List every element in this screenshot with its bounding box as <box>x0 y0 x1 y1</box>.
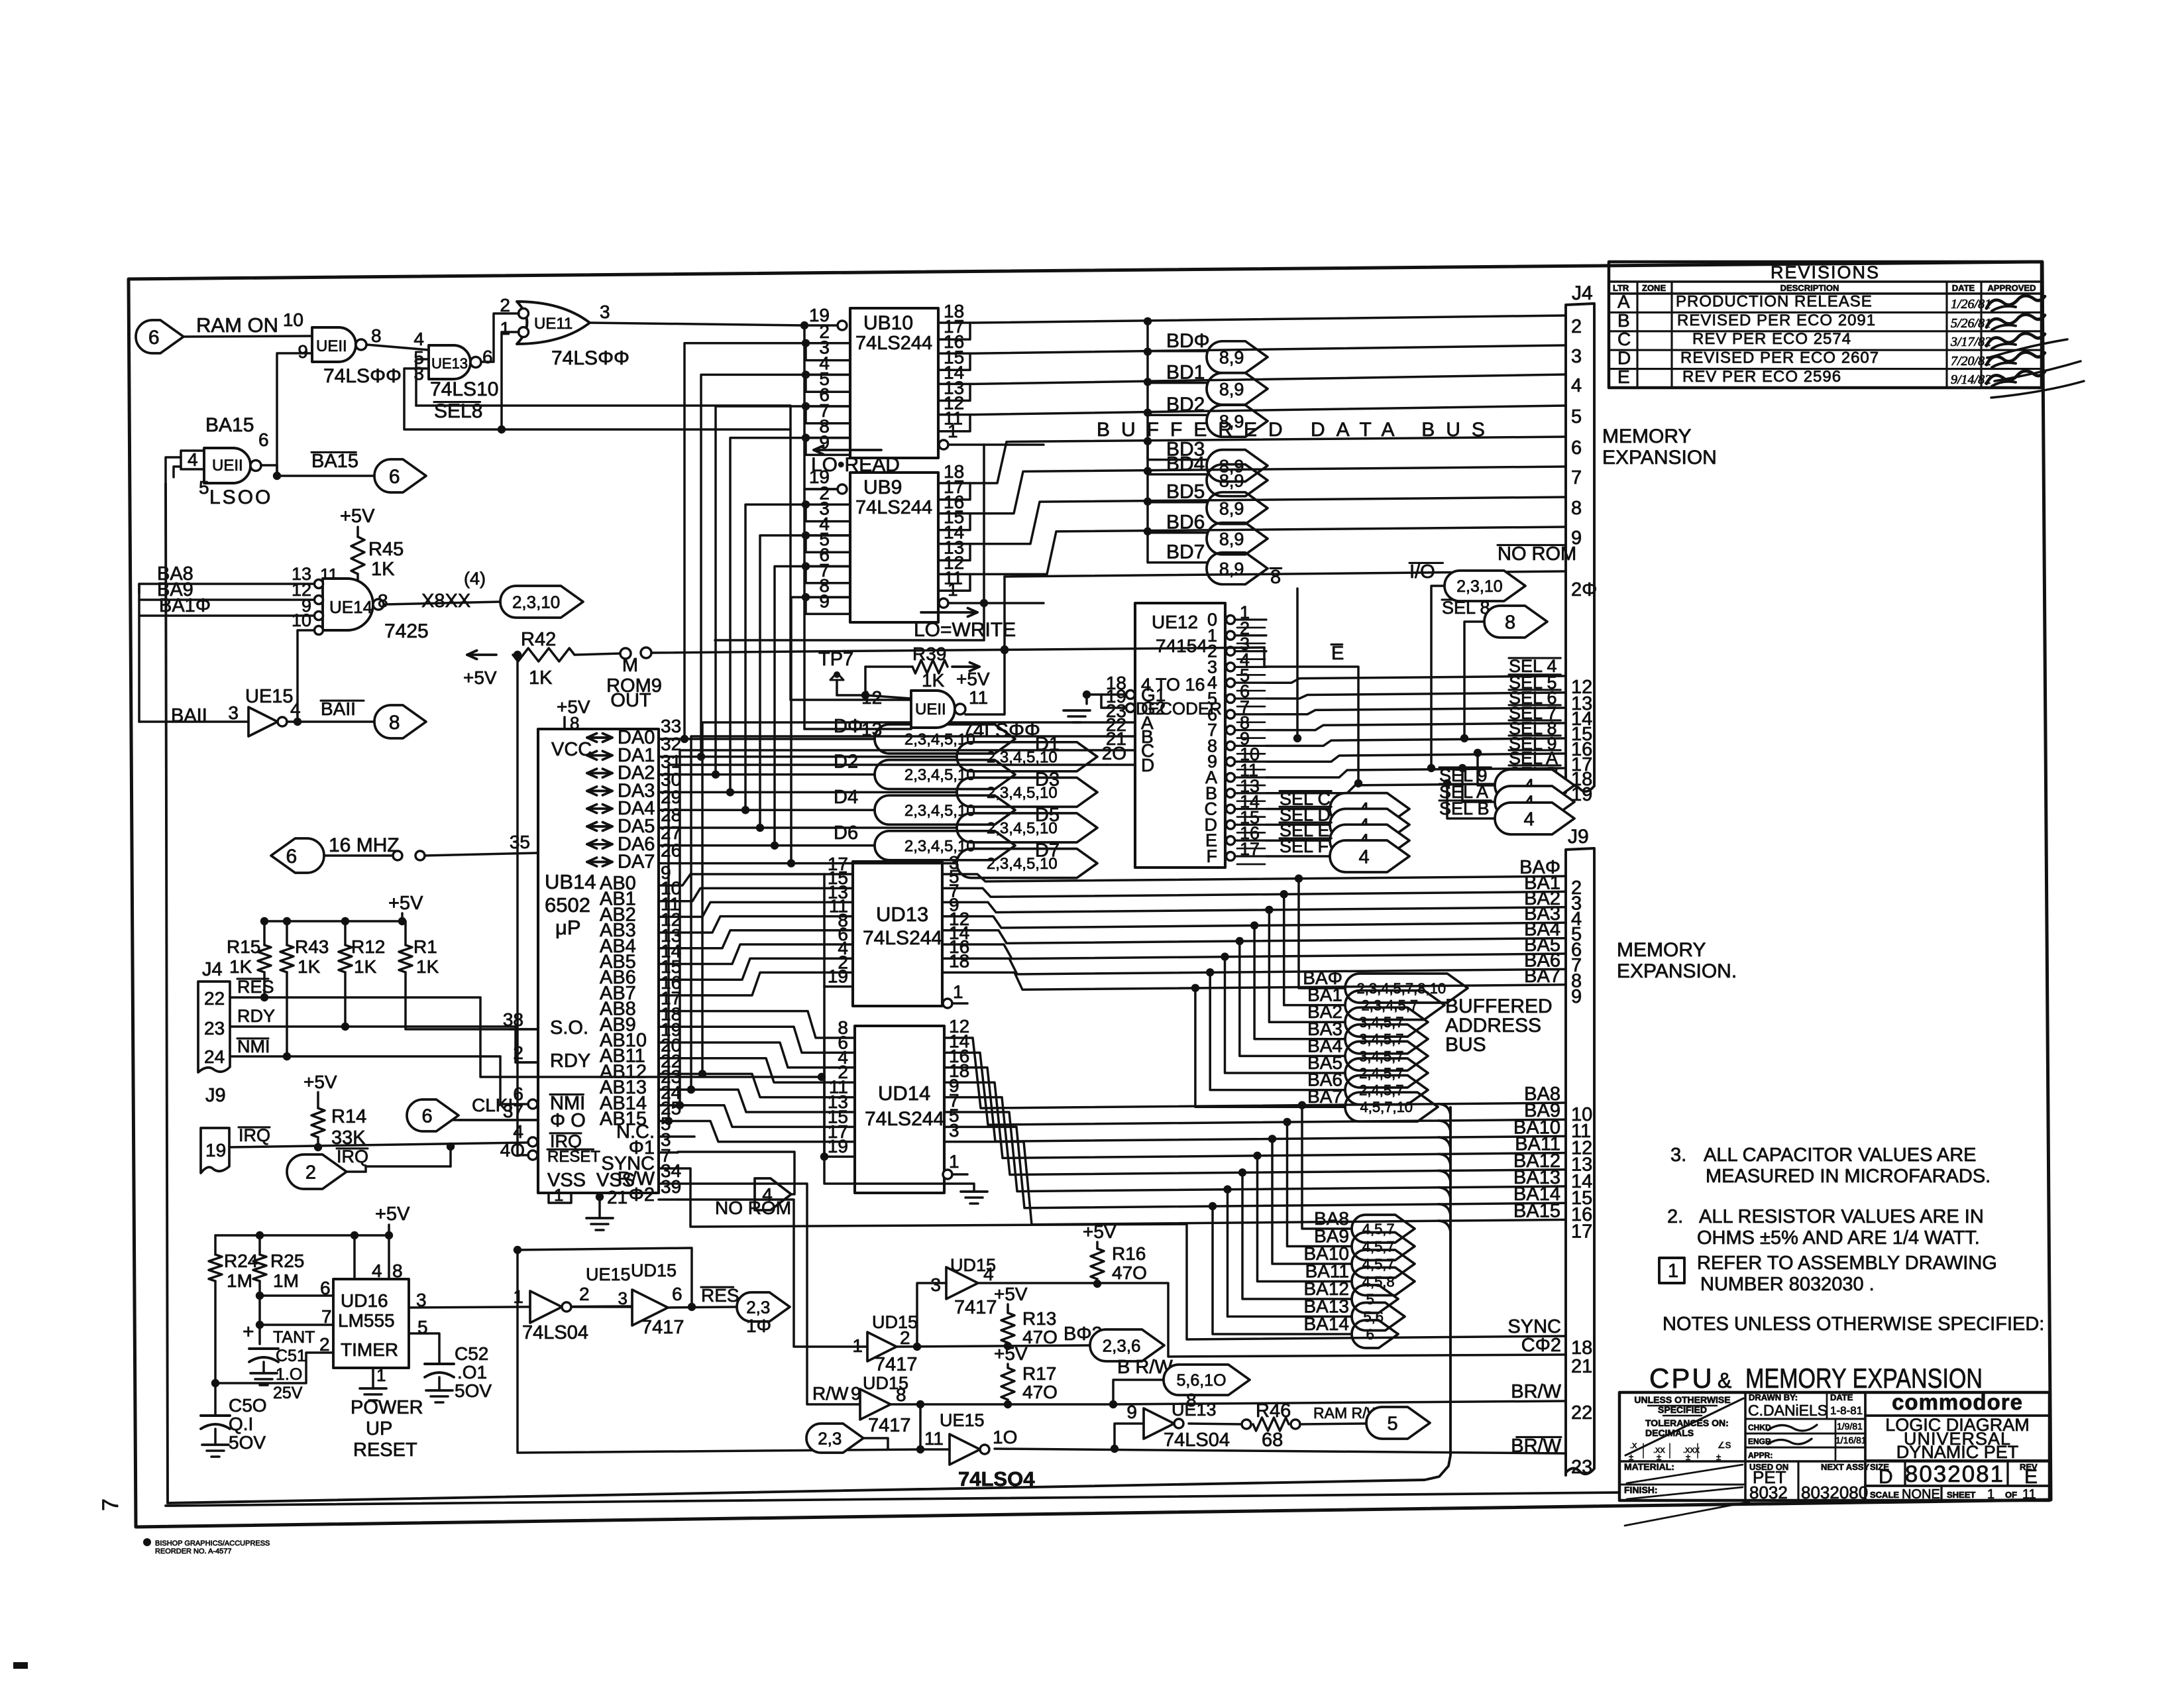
flag 4,5,7 <box>1352 1250 1415 1278</box>
svg-text:3: 3 <box>930 1274 941 1295</box>
svg-text:μP: μP <box>555 916 581 939</box>
svg-text:6: 6 <box>148 327 160 349</box>
svg-text:10: 10 <box>292 610 311 630</box>
net BA10 stub to flag <box>1268 1135 1276 1143</box>
net BA7 stub to flag <box>1191 984 1199 992</box>
svg-text:47O: 47O <box>1022 1327 1058 1347</box>
svg-text:SCALE: SCALE <box>1870 1490 1899 1500</box>
svg-text:IRQ: IRQ <box>239 1125 270 1145</box>
flag 8,9 <box>1207 523 1268 555</box>
svg-text:4: 4 <box>1359 846 1370 868</box>
gate body UE11 <box>312 327 356 362</box>
R15 zigzag <box>258 945 271 972</box>
svg-text:8,9: 8,9 <box>1219 379 1244 399</box>
wire R/W to driver <box>678 1184 860 1404</box>
svg-text:TIMER: TIMER <box>341 1339 398 1360</box>
svg-text:8,9: 8,9 <box>1219 471 1244 490</box>
wire AB3 to UD13 <box>678 917 824 933</box>
svg-text:4,5,7: 4,5,7 <box>1362 1256 1395 1272</box>
svg-text:BDΦ: BDΦ <box>1166 330 1210 352</box>
svg-text:RDY: RDY <box>237 1006 275 1026</box>
svg-text:26: 26 <box>661 840 681 861</box>
net SEL B second flag 4 <box>1443 779 1451 787</box>
svg-text:VCC: VCC <box>551 739 592 760</box>
wire AB15 to UD14 <box>678 1121 824 1142</box>
resistor R39 1K <box>864 667 867 695</box>
svg-text:LSOO: LSOO <box>209 486 272 508</box>
wire DA4 vertical <box>745 504 798 810</box>
wire BD2 <box>974 374 1566 384</box>
wire UE12 input D <box>669 765 1107 1121</box>
flag 8,9 <box>1207 465 1268 496</box>
svg-text:C52: C52 <box>455 1343 488 1364</box>
svg-text:1M: 1M <box>227 1270 252 1291</box>
bus tap BA12 <box>1439 1170 1450 1182</box>
svg-text:APPROVED: APPROVED <box>1988 283 2036 293</box>
resistor R24 1M <box>214 1235 217 1255</box>
svg-text:D: D <box>1879 1466 1893 1488</box>
flag 2,4,5,7 <box>1345 1058 1428 1088</box>
svg-text:Q.I: Q.I <box>229 1414 253 1434</box>
svg-text:8032: 8032 <box>1749 1483 1788 1502</box>
svg-text:UE15: UE15 <box>245 686 294 707</box>
inverter UE13 74LS04 <box>1115 1424 1144 1449</box>
svg-text:LO•READ: LO•READ <box>811 454 900 476</box>
svg-text:9: 9 <box>1126 1402 1137 1422</box>
R14 zigzag <box>311 1108 325 1137</box>
svg-text:+5V: +5V <box>956 669 990 689</box>
svg-text:A: A <box>1617 291 1630 311</box>
svg-text:UD14: UD14 <box>878 1082 930 1105</box>
fine print <box>143 1538 151 1546</box>
C51 cap symbol <box>249 1349 278 1362</box>
svg-text:5/26/81: 5/26/81 <box>1951 316 1991 331</box>
svg-text:R16: R16 <box>1112 1243 1146 1264</box>
svg-text:+5V: +5V <box>1083 1221 1117 1242</box>
svg-text:BA15: BA15 <box>205 414 254 436</box>
wire BRW to J9-22 <box>1113 1401 1566 1404</box>
svg-text:4: 4 <box>372 1261 382 1281</box>
svg-text:8,9: 8,9 <box>1219 529 1244 549</box>
wire UB enables vertical <box>983 445 985 640</box>
svg-text:CΦ2: CΦ2 <box>1521 1335 1561 1356</box>
svg-text:74LS244: 74LS244 <box>855 333 932 354</box>
svg-text:7417: 7417 <box>641 1317 684 1338</box>
svg-text:6: 6 <box>286 846 298 868</box>
resistor R42 <box>467 653 496 656</box>
wire BD6 <box>974 497 1566 544</box>
svg-text:25V: 25V <box>273 1384 303 1402</box>
svg-text:RAM ON: RAM ON <box>196 313 278 337</box>
svg-text:8: 8 <box>1571 498 1582 519</box>
svg-text:RDY: RDY <box>550 1050 590 1072</box>
svg-text:J4: J4 <box>1572 282 1593 304</box>
IC UD16 LM555 TIMER <box>333 1279 409 1368</box>
svg-text:7/20/82: 7/20/82 <box>1951 354 1991 368</box>
svg-text:21: 21 <box>607 1187 628 1208</box>
svg-text:19: 19 <box>205 1140 226 1160</box>
svg-text:3: 3 <box>618 1288 628 1308</box>
svg-text:68: 68 <box>1262 1430 1283 1451</box>
svg-text:UNLESS OTHERWISE: UNLESS OTHERWISE <box>1634 1394 1730 1405</box>
svg-text:J4: J4 <box>202 959 223 980</box>
border frame <box>129 262 2051 1527</box>
svg-text:SHEET: SHEET <box>1947 1490 1975 1500</box>
svg-text:1M: 1M <box>273 1270 299 1291</box>
svg-text:8: 8 <box>570 713 579 733</box>
svg-text:7417: 7417 <box>875 1354 918 1375</box>
svg-text:5,6,1O: 5,6,1O <box>1176 1371 1226 1390</box>
svg-text:TP7: TP7 <box>818 649 853 670</box>
svg-text:8: 8 <box>371 325 382 346</box>
svg-text:7417: 7417 <box>868 1415 911 1436</box>
svg-text:J9: J9 <box>205 1085 226 1106</box>
wire SYNC long <box>678 1168 1566 1339</box>
svg-text:1K: 1K <box>298 956 321 977</box>
net BA2 stub to flag <box>1265 906 1273 914</box>
wire AB0 to UD13 <box>678 874 824 885</box>
wire RAM ON <box>184 336 312 337</box>
wire SEL 7 <box>1266 723 1566 730</box>
svg-text:4: 4 <box>983 1264 994 1284</box>
wire PHI2 to BPHI2 driver <box>678 1200 867 1347</box>
wire R42 to ROM9 jumper <box>575 653 620 655</box>
svg-text:8,9: 8,9 <box>1219 559 1244 579</box>
svg-text:6: 6 <box>422 1105 433 1127</box>
IC UE12 74154 4-to-16 decoder <box>1135 603 1225 868</box>
gate body UD15 c <box>867 1332 897 1361</box>
wires R25 to pins 6,7 <box>258 1281 261 1344</box>
gate body UE14 <box>323 579 373 630</box>
R25 zigzag <box>253 1255 266 1281</box>
wire RES-bar to RESET vertical <box>518 1248 692 1307</box>
gate body UE11 or <box>517 302 590 344</box>
wire SEL A <box>1266 768 1566 777</box>
wire AB1 to UD13 <box>678 888 824 901</box>
net BA4 stub to flag <box>1236 937 1244 945</box>
flag 4,5,7 <box>1352 1215 1415 1243</box>
svg-text:22: 22 <box>204 988 225 1009</box>
wire AB8 to UD14 <box>678 1011 824 1038</box>
bus tap BA15 <box>1439 1221 1450 1232</box>
bus tap BA13 <box>1439 1188 1450 1199</box>
net BA14 stub to flag <box>1209 1202 1217 1210</box>
flag 8 <box>374 705 426 738</box>
svg-text:D2: D2 <box>834 752 858 773</box>
svg-text:33K: 33K <box>331 1127 366 1149</box>
wire UE11(or) out to UB10 pin19 <box>590 323 804 325</box>
flag 6 <box>1352 1320 1398 1348</box>
R39 zigzag <box>912 660 948 673</box>
svg-text:1/16/81: 1/16/81 <box>1835 1435 1867 1445</box>
svg-text:UD15: UD15 <box>631 1261 677 1280</box>
svg-text:1.O: 1.O <box>276 1365 302 1384</box>
svg-text:9: 9 <box>1571 986 1582 1007</box>
svg-text:RESET: RESET <box>547 1148 600 1166</box>
svg-text:TANT: TANT <box>273 1328 315 1347</box>
svg-text:8: 8 <box>378 590 388 611</box>
svg-text:74LSΦΦ: 74LSΦΦ <box>323 365 402 387</box>
wire DA7 vertical <box>791 597 798 864</box>
svg-text:2: 2 <box>305 1162 316 1183</box>
svg-text:C: C <box>1617 329 1631 349</box>
wire UE12 input A <box>702 722 1107 1074</box>
flag 2,3 (RW) <box>806 1424 863 1453</box>
svg-text:2,3,10: 2,3,10 <box>1456 577 1503 596</box>
wire UE11 pin9 from BA15 junction <box>277 353 312 476</box>
wire DA1 vertical <box>701 374 798 756</box>
wire BA6 <box>942 958 1566 974</box>
wire SEL 5 <box>1266 693 1566 699</box>
svg-text:16 MHZ: 16 MHZ <box>329 834 400 856</box>
wire AB11 to UD14 <box>678 1058 824 1083</box>
svg-text:1: 1 <box>953 982 963 1002</box>
svg-text:6: 6 <box>389 466 400 488</box>
svg-text:MEASURED IN MICROFARADS.: MEASURED IN MICROFARADS. <box>1706 1166 1991 1187</box>
IC UD14 74LS244 <box>855 1026 944 1193</box>
svg-text:5: 5 <box>1571 406 1582 427</box>
wire BA13 <box>944 1112 1566 1192</box>
svg-text:MEMORY: MEMORY <box>1617 939 1706 961</box>
svg-text:R42: R42 <box>521 629 556 650</box>
svg-text:R43: R43 <box>295 936 329 957</box>
wire RES route <box>480 997 822 1077</box>
svg-text:D: D <box>1141 755 1154 775</box>
svg-text:74LSΦΦ: 74LSΦΦ <box>551 347 629 369</box>
svg-text:R/W: R/W <box>812 1383 849 1404</box>
R43 zigzag <box>280 945 294 972</box>
R17 zigzag <box>1001 1368 1014 1400</box>
svg-text:+5V: +5V <box>994 1343 1028 1364</box>
ground <box>586 1218 613 1230</box>
svg-text:R14: R14 <box>331 1106 366 1127</box>
svg-text:NMI: NMI <box>237 1037 270 1056</box>
flag 5 <box>1352 1285 1398 1313</box>
svg-text:18: 18 <box>949 950 969 971</box>
vertical joint RW row to bottom wire <box>919 1404 922 1449</box>
wire UE14 pin10 from BA11-bar <box>298 630 314 722</box>
wire BA12 <box>944 1097 1566 1175</box>
bus tap BA11 <box>1439 1154 1450 1165</box>
svg-text:D: D <box>1617 348 1631 368</box>
svg-text:10: 10 <box>283 309 303 330</box>
wire 16MHZ <box>324 854 392 857</box>
ground <box>360 1388 386 1400</box>
svg-text:1K: 1K <box>229 956 252 977</box>
wire SEL 6 <box>1266 708 1566 714</box>
flag 3,4,5,7 <box>1345 1025 1428 1054</box>
svg-text:+5V: +5V <box>388 893 423 914</box>
svg-text:CLKI: CLKI <box>472 1095 513 1115</box>
svg-text:OF: OF <box>2005 1490 2017 1500</box>
svg-text:C.DANiELS: C.DANiELS <box>1748 1402 1828 1419</box>
svg-text:UEII: UEII <box>915 701 946 718</box>
svg-text:3.: 3. <box>1670 1145 1686 1166</box>
svg-text:ALL RESISTOR VALUES ARE IN: ALL RESISTOR VALUES ARE IN <box>1699 1206 1984 1227</box>
UE12 G1/G2 ground <box>1101 695 1126 708</box>
svg-text:8,9: 8,9 <box>1219 498 1244 518</box>
svg-text:R17: R17 <box>1022 1363 1056 1384</box>
svg-text:R15: R15 <box>227 936 260 957</box>
svg-text:4: 4 <box>290 699 301 720</box>
svg-text:UB10: UB10 <box>863 312 913 334</box>
IC UB14 6502 uP <box>538 729 659 1193</box>
svg-text:1K: 1K <box>922 670 945 691</box>
svg-text:8: 8 <box>392 1261 403 1281</box>
net BA11 stub to flag <box>1253 1152 1261 1160</box>
svg-text:F: F <box>1207 846 1218 866</box>
svg-text:11: 11 <box>969 687 988 708</box>
svg-text:8: 8 <box>389 712 400 734</box>
flag 2,3,4,5,7 <box>1345 991 1445 1020</box>
svg-text:11: 11 <box>924 1428 944 1449</box>
svg-text:J9: J9 <box>1568 826 1589 848</box>
wire BA9 <box>944 1052 1566 1125</box>
flag 4,5,7,10 <box>1345 1092 1438 1121</box>
flag 6 CLK1 <box>407 1099 459 1131</box>
svg-text:R12: R12 <box>351 936 385 957</box>
svg-text:LO=WRITE: LO=WRITE <box>914 619 1016 641</box>
wire DA3 vertical <box>730 438 798 793</box>
svg-text:UE15: UE15 <box>940 1410 985 1430</box>
UD13 pin ladder <box>823 874 826 987</box>
flag 4,5,7 <box>1352 1233 1415 1261</box>
svg-text:39: 39 <box>661 1176 681 1197</box>
svg-text:E: E <box>2024 1466 2038 1488</box>
svg-text:47O: 47O <box>1022 1382 1058 1402</box>
svg-text:6: 6 <box>1366 1326 1374 1343</box>
net SEL A second flag 4 <box>1458 764 1466 772</box>
svg-text:PRODUCTION RELEASE: PRODUCTION RELEASE <box>1676 292 1873 310</box>
svg-text:23: 23 <box>204 1018 225 1039</box>
svg-text:R39: R39 <box>912 644 946 664</box>
svg-text:8: 8 <box>896 1384 906 1405</box>
svg-text:5OV: 5OV <box>455 1380 492 1401</box>
wire pin2 <box>215 1353 333 1383</box>
wire BA11 <box>944 1082 1566 1158</box>
wire BD5 <box>974 467 1566 514</box>
svg-text:DESCRIPTION: DESCRIPTION <box>1780 283 1839 293</box>
bus collector wraparound <box>166 484 1450 1503</box>
net BA3 stub to flag <box>1250 921 1258 929</box>
svg-text:4: 4 <box>1524 809 1535 830</box>
svg-text:+5V: +5V <box>303 1072 337 1092</box>
wire enable down to UE11-13 <box>803 489 806 729</box>
net SEL 9 second flag 4 <box>1474 749 1482 757</box>
wire AB2 to UD13 <box>678 902 824 917</box>
IC UD13 74LS244 <box>853 862 942 1006</box>
svg-text:7: 7 <box>1571 467 1582 488</box>
svg-text:7: 7 <box>321 1306 332 1327</box>
svg-text:REV PER ECO 2596: REV PER ECO 2596 <box>1682 368 1841 386</box>
net SEL E flag 4 <box>1266 839 1330 842</box>
wire BD3 <box>974 406 1566 415</box>
wire SO from R1 <box>406 972 510 1029</box>
gate body UE15 inv <box>248 707 278 736</box>
svg-text:BD4: BD4 <box>1166 453 1205 475</box>
net BA12 stub to flag <box>1238 1168 1246 1176</box>
UD14 pin ladder <box>823 1038 826 1156</box>
svg-text:1-8-81: 1-8-81 <box>1830 1404 1863 1417</box>
svg-text:NO ROM: NO ROM <box>1498 543 1576 565</box>
svg-text:BUFFERED DATA BUS: BUFFERED DATA BUS <box>1097 419 1496 441</box>
flag 16 MHZ <box>271 838 324 873</box>
svg-text:OHMS ±5% AND ARE 1/4 WATT: OHMS ±5% AND ARE 1/4 WATT. <box>1697 1227 1980 1249</box>
svg-text:UP: UP <box>366 1418 392 1439</box>
svg-text:UEII: UEII <box>316 337 347 355</box>
svg-text:REV PER ECO 2574: REV PER ECO 2574 <box>1692 330 1851 348</box>
flag 3,4,5,7 <box>1345 1007 1428 1037</box>
wire BA2 <box>942 902 1566 912</box>
svg-text:REVISIONS: REVISIONS <box>1771 262 1880 282</box>
svg-text:MEMORY EXPANSION: MEMORY EXPANSION <box>1745 1363 1983 1394</box>
svg-text:NOTES UNLESS OTHERWISE SPEC: NOTES UNLESS OTHERWISE SPECIFIED: <box>1663 1314 2044 1335</box>
note 1 box <box>1659 1258 1684 1283</box>
svg-text:8: 8 <box>1270 567 1281 588</box>
svg-text:2: 2 <box>319 1334 330 1355</box>
C52 cap symbol <box>425 1364 454 1377</box>
svg-text:DATE: DATE <box>1952 283 1975 293</box>
svg-text:DYNAMIC PET: DYNAMIC PET <box>1896 1442 2019 1462</box>
svg-text:6: 6 <box>320 1278 331 1298</box>
R13 zigzag <box>1001 1313 1014 1343</box>
svg-text:2,3,4,5,10: 2,3,4,5,10 <box>904 837 975 855</box>
gate body UE15 RES <box>530 1291 562 1323</box>
wire BA3 <box>942 917 1566 928</box>
wire AB10 to UD14 <box>678 1042 824 1068</box>
svg-text:REFER TO ASSEMBLY DRAWING: REFER TO ASSEMBLY DRAWING <box>1697 1253 1997 1274</box>
svg-text:Φ O: Φ O <box>550 1110 586 1131</box>
gate body UE13 <box>429 345 470 379</box>
svg-text:74LS244: 74LS244 <box>863 927 942 949</box>
wire AB14 to UD14 <box>678 1105 824 1127</box>
svg-text:+5V: +5V <box>375 1204 410 1225</box>
svg-text:MATERIAL:: MATERIAL: <box>1624 1461 1674 1472</box>
svg-text:MEMORY: MEMORY <box>1602 425 1691 447</box>
svg-text:POWER: POWER <box>351 1397 423 1418</box>
svg-text:BA14: BA14 <box>1304 1314 1350 1334</box>
svg-text:SEL F: SEL F <box>1280 836 1329 856</box>
wire BD1 <box>974 345 1566 353</box>
svg-text:VSS: VSS <box>547 1170 586 1191</box>
flag 2,3,4,5,7,8,10 <box>1345 974 1468 1003</box>
wire R24 down to C50 <box>214 1281 217 1383</box>
bus tap BA8 <box>1439 1104 1450 1115</box>
svg-text:4: 4 <box>188 449 198 470</box>
svg-text:74LS10: 74LS10 <box>430 378 498 400</box>
wire UD13/UD14 enable <box>823 987 826 1157</box>
wire enable to UB9 pin19 <box>804 325 838 489</box>
svg-text:4,5,7: 4,5,7 <box>1362 1221 1395 1237</box>
wire BA4 <box>942 930 1566 944</box>
wire DA6 vertical <box>775 567 798 846</box>
svg-text:REVISED PER ECO 2091: REVISED PER ECO 2091 <box>1677 311 1876 329</box>
svg-text:1K: 1K <box>371 559 395 580</box>
tolerance slash <box>1625 1398 1743 1455</box>
svg-text:3: 3 <box>1571 346 1582 367</box>
svg-text:21: 21 <box>1571 1356 1592 1377</box>
svg-text:ALL CAPACITOR VALUES ARE: ALL CAPACITOR VALUES ARE <box>1704 1145 1977 1166</box>
gate body UE11 c <box>911 691 955 728</box>
svg-text:8032080: 8032080 <box>1801 1483 1868 1502</box>
wire BA15 gate inputs <box>166 457 181 484</box>
LO=READ label <box>814 449 881 451</box>
wire UD15b out -> CPHI2 <box>978 1283 1566 1357</box>
svg-text:2.: 2. <box>1667 1206 1683 1227</box>
wire AB7 to UD13 <box>678 972 824 995</box>
svg-text:1/9/81: 1/9/81 <box>1837 1421 1863 1432</box>
svg-text:BD7: BD7 <box>1166 541 1205 563</box>
